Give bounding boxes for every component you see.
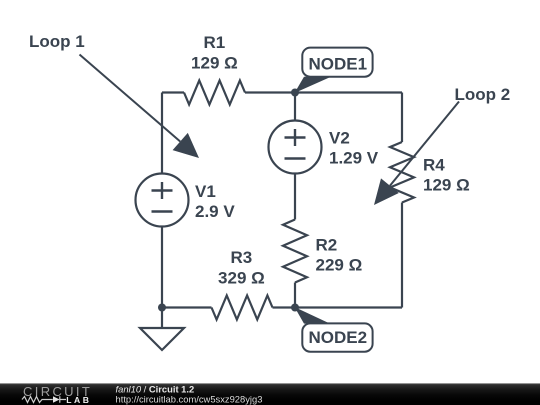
wire right vertical lower (R4 to bottom corner) xyxy=(401,203,403,308)
wire top-left corner to R1 xyxy=(162,91,184,93)
voltage source V1 xyxy=(136,174,189,227)
svg-text:Loop 2: Loop 2 xyxy=(455,85,511,104)
svg-text:R1: R1 xyxy=(204,33,226,52)
wire NODE1 to top-right corner xyxy=(295,91,402,93)
annotation arrow Loop 1 xyxy=(80,55,200,159)
wire V2 - to R2 xyxy=(294,174,296,220)
wire NODE1 to V2 + xyxy=(294,93,296,121)
wire ground node to R3 xyxy=(162,306,212,308)
svg-text:129 Ω: 129 Ω xyxy=(191,54,238,73)
wire R3 to NODE2 xyxy=(273,306,296,308)
svg-text:http://circuitlab.com/cw5sxz92: http://circuitlab.com/cw5sxz928yjg3 xyxy=(116,394,263,405)
svg-text:129 Ω: 129 Ω xyxy=(423,176,470,195)
svg-text:329 Ω: 329 Ω xyxy=(218,268,265,287)
svg-text:NODE2: NODE2 xyxy=(309,328,368,347)
resistor R3 xyxy=(212,296,273,320)
svg-text:V1: V1 xyxy=(195,182,216,201)
ground xyxy=(140,308,184,351)
svg-text:2.9 V: 2.9 V xyxy=(195,202,235,221)
svg-text:R3: R3 xyxy=(231,248,253,267)
resistor R4 xyxy=(390,142,414,203)
node junction dot NODE1 xyxy=(291,89,299,97)
wire left vertical upper (corner to V1 +) xyxy=(161,93,163,174)
svg-text:R2: R2 xyxy=(316,236,338,255)
node junction dot NODE2 xyxy=(291,304,299,312)
voltage source V2 xyxy=(269,121,322,174)
svg-text:NODE1: NODE1 xyxy=(309,55,368,74)
wire left vertical lower (V1 - to ground node) xyxy=(161,227,163,308)
svg-text:V2: V2 xyxy=(329,129,350,148)
node junction dot at ground xyxy=(158,304,166,312)
node label NODE1 xyxy=(295,48,373,93)
resistor R1 xyxy=(184,81,245,105)
wire R2 to NODE2 xyxy=(294,283,296,308)
wire R1 to NODE1 xyxy=(245,91,295,93)
wire NODE2 to bottom-right corner xyxy=(295,306,402,308)
node label NODE2 xyxy=(295,307,373,352)
resistor R2 xyxy=(283,220,307,283)
annotation arrow Loop 2 xyxy=(374,102,459,206)
wire right vertical upper (corner to R4) xyxy=(401,93,403,143)
logo resistor-diode glyph xyxy=(22,396,66,403)
svg-text:R4: R4 xyxy=(423,156,445,175)
svg-text:Loop 1: Loop 1 xyxy=(29,32,85,51)
footer bar xyxy=(0,383,540,405)
svg-text:LAB: LAB xyxy=(66,395,91,405)
svg-text:229 Ω: 229 Ω xyxy=(316,256,363,275)
svg-text:1.29 V: 1.29 V xyxy=(329,149,379,168)
